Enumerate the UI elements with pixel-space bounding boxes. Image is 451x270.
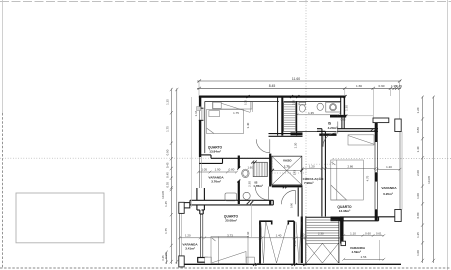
svg-text:1.20: 1.20: [416, 107, 420, 113]
bed q25: [211, 237, 248, 264]
svg-text:1.75: 1.75: [164, 228, 168, 234]
ext line varanda459: [378, 240, 380, 261]
svg-text:0.45: 0.45: [166, 162, 170, 168]
svg-text:1.60: 1.60: [247, 165, 253, 169]
svg-text:1.20: 1.20: [293, 142, 297, 148]
ticks box bottom: [283, 185, 286, 188]
dim line 8.45 chain: [197, 87, 401, 89]
shower hatch: [253, 162, 267, 176]
toilet1: [299, 102, 306, 105]
sheet border left solid: [2, 0, 4, 113]
svg-text:1.25: 1.25: [166, 99, 170, 105]
svg-text:1.20: 1.20: [185, 234, 191, 238]
railing varanda376 west: [199, 157, 201, 188]
svg-text:1.30: 1.30: [345, 105, 349, 111]
svg-text:4.20m²: 4.20m²: [328, 126, 338, 130]
axis dotted vertical: [305, 0, 307, 270]
svg-text:10.08: 10.08: [161, 191, 165, 199]
wall stub left of pillar: [182, 203, 190, 208]
wall thickness ticks: [247, 95, 250, 98]
svg-text:0.40: 0.40: [294, 170, 297, 175]
svg-text:2.30: 2.30: [318, 232, 324, 236]
svg-text:1.90: 1.90: [215, 168, 221, 172]
counter: [326, 102, 341, 112]
svg-text:0.60: 0.60: [365, 231, 371, 235]
pillar left lower: [179, 256, 184, 267]
svg-text:0.90: 0.90: [290, 202, 294, 208]
axis dotted horizontal: [0, 157, 272, 159]
svg-text:0.80: 0.80: [416, 212, 420, 218]
svg-text:1.35: 1.35: [308, 111, 314, 115]
svg-text:1.75: 1.75: [166, 126, 170, 132]
wall bathroom east band: [330, 115, 346, 118]
svg-text:4.75: 4.75: [365, 175, 369, 181]
svg-text:2.30: 2.30: [248, 181, 252, 187]
wall bedroom2 east middle: [375, 172, 378, 181]
nightstand q25 left: [205, 257, 212, 264]
beam top right: [373, 118, 389, 123]
svg-text:1.10: 1.10: [350, 231, 356, 235]
svg-text:0.80: 0.80: [416, 127, 420, 133]
bidet: [317, 103, 323, 110]
svg-text:1.10: 1.10: [246, 231, 250, 237]
overhang line right: [346, 115, 373, 117]
svg-text:0.45: 0.45: [161, 255, 165, 261]
svg-text:0.90: 0.90: [166, 149, 170, 155]
svg-text:6.20m²: 6.20m²: [383, 192, 393, 196]
dim long bottom interior: [180, 237, 341, 239]
pillar left upper: [179, 202, 184, 213]
wall top exterior: [199, 95, 346, 97]
svg-text:2.56: 2.56: [361, 255, 367, 259]
slab tick clusters: [253, 263, 256, 266]
svg-text:2.00: 2.00: [416, 170, 420, 176]
basin: [330, 104, 337, 111]
wall IS1 east: [269, 154, 271, 187]
sheet border top: [0, 1, 451, 3]
svg-text:2.50: 2.50: [302, 233, 306, 239]
extension lines: [198, 82, 200, 95]
gray rectangle lower-left: [16, 193, 104, 243]
svg-text:1.45: 1.45: [164, 201, 168, 207]
wardrobe bedroom2: [348, 135, 374, 145]
svg-text:1.75: 1.75: [233, 111, 239, 115]
svg-text:0.61: 0.61: [376, 231, 382, 235]
roof overhang light line: [191, 97, 193, 207]
wall bathroom south: [297, 131, 337, 133]
svg-text:0.35: 0.35: [245, 99, 248, 104]
svg-text:3.40: 3.40: [246, 122, 250, 128]
svg-text:11.60: 11.60: [292, 77, 300, 81]
ticks corner wall: [342, 115, 345, 118]
svg-text:4.59m²: 4.59m²: [351, 250, 361, 254]
sheet border right: [447, 0, 449, 270]
wall bedroom2 north east piece: [337, 128, 378, 130]
wall south bedroom2 hollow: [340, 216, 379, 218]
bottom slab line: [179, 263, 401, 265]
wall left exterior: [199, 96, 201, 109]
wall top inner line: [205, 100, 279, 102]
svg-text:VASO: VASO: [283, 159, 292, 163]
dim varanda376: [198, 171, 236, 173]
wall q25 west bottom cap: [198, 258, 208, 263]
svg-text:3.73: 3.73: [227, 234, 233, 238]
svg-text:25.08m²: 25.08m²: [225, 219, 237, 223]
svg-text:1.66: 1.66: [356, 84, 362, 88]
svg-text:1.20: 1.20: [309, 164, 315, 168]
window fin B cap: [288, 221, 294, 224]
wardrobe bedroom1: [213, 102, 253, 109]
wall stair right thick: [340, 218, 343, 244]
door bathroom: [337, 122, 339, 134]
svg-text:1.78m²: 1.78m²: [253, 184, 263, 188]
svg-text:13.38m²: 13.38m²: [339, 209, 351, 213]
wall bedroom2 east lower: [375, 209, 378, 221]
window q25 west: [199, 214, 201, 258]
window fin A: [259, 221, 261, 263]
svg-text:0.85: 0.85: [341, 119, 346, 122]
bed bedroom1: [207, 110, 244, 134]
wall IS1 west with window gap: [238, 156, 240, 169]
stair void X: [306, 243, 322, 263]
wall balcony south edge right: [379, 216, 402, 218]
dim bedroom2 horizontal: [302, 168, 376, 170]
pillar right upper: [395, 119, 401, 132]
window fin A cap: [260, 221, 272, 224]
wall cross junction left: [197, 188, 205, 214]
svg-text:1.25: 1.25: [416, 232, 420, 238]
wall stair top edge: [306, 216, 340, 218]
basin: [242, 169, 249, 178]
pillar right lower: [395, 210, 401, 222]
stair wall end pillar: [341, 241, 346, 245]
svg-text:8.45: 8.45: [269, 84, 276, 88]
wall left inner line: [204, 101, 206, 153]
dim 1.20 balcony right: [377, 168, 400, 170]
svg-text:VARANDA: VARANDA: [381, 186, 397, 190]
railing varanda341 west: [179, 213, 181, 256]
window bedroom2 east lower: [374, 182, 376, 210]
wall varanda376 / IS south hollow band: [190, 200, 273, 205]
dim varanda459: [344, 235, 384, 237]
wall black square stair top: [331, 217, 344, 222]
wall corridor north hollow: [269, 133, 303, 135]
svg-text:1.40: 1.40: [416, 146, 420, 152]
svg-text:0.35: 0.35: [396, 84, 402, 88]
dim line 11.60: [197, 80, 401, 82]
svg-text:1.16: 1.16: [194, 110, 198, 116]
wall bedroom1 south stepped hollow band: [199, 154, 211, 156]
window left wall bedroom1: [180, 107, 403, 256]
svg-text:1.75: 1.75: [284, 164, 290, 168]
wall bedroom2 west hollow: [321, 129, 323, 217]
dim 1.35 bath: [297, 114, 339, 116]
svg-text:10.08: 10.08: [427, 176, 431, 184]
svg-text:1.00: 1.00: [416, 193, 420, 199]
door bedroom1: [269, 139, 271, 153]
bed bedroom2: [331, 160, 364, 200]
toilet: [243, 192, 250, 199]
bench varanda: [225, 193, 237, 201]
ticks IS south wall: [247, 201, 250, 204]
wall top-right corner vertical hollow: [340, 97, 342, 115]
window fin B: [293, 221, 295, 263]
svg-text:0.55: 0.55: [166, 182, 170, 188]
svg-text:0.45: 0.45: [166, 172, 170, 178]
railing varanda620 east: [399, 132, 401, 210]
wall stair west fin: [297, 188, 299, 217]
svg-text:13.84m²: 13.84m²: [209, 150, 221, 154]
wall void box south: [272, 185, 303, 187]
svg-text:0.35: 0.35: [293, 99, 296, 104]
bottom-left small dim: [166, 252, 168, 264]
svg-text:7.98m²: 7.98m²: [304, 181, 314, 185]
svg-text:3.41m²: 3.41m²: [185, 246, 195, 250]
door bedroom2: [322, 133, 324, 147]
sheet border left dashed: [2, 113, 4, 268]
wall bedroom1 east pair: [277, 97, 279, 136]
svg-text:3.76m²: 3.76m²: [211, 179, 221, 183]
svg-text:2.10: 2.10: [293, 240, 297, 246]
extension light line: [251, 200, 253, 237]
wall bedroom2 east upper: [375, 123, 378, 142]
wall stair left inner: [305, 216, 307, 263]
sheet bottom dashed line: [0, 267, 451, 269]
svg-text:0.80: 0.80: [229, 168, 235, 172]
wall stub bath-bedroom2: [341, 117, 343, 130]
svg-text:1.05: 1.05: [201, 168, 207, 172]
wall stair right thin: [338, 217, 340, 264]
nightstand q25 right: [246, 257, 254, 264]
inner dim labels: [185, 99, 392, 259]
door corridor: [294, 190, 296, 204]
svg-text:1.40: 1.40: [276, 234, 282, 238]
black bar below closet: [291, 132, 303, 135]
svg-text:1.20: 1.20: [386, 165, 392, 169]
dim 2.56: [344, 258, 384, 260]
window bedroom2 east upper: [374, 142, 376, 172]
svg-text:0.90: 0.90: [378, 84, 384, 88]
door IS1: [267, 187, 269, 200]
svg-text:1.00: 1.00: [416, 250, 420, 256]
wall bedroom2 north west piece: [317, 128, 322, 130]
svg-text:2.86: 2.86: [347, 164, 353, 168]
